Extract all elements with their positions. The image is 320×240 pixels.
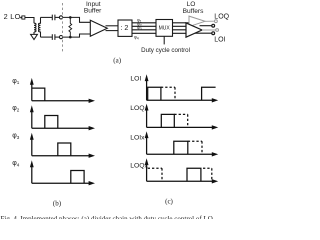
phi4 axis xyxy=(30,160,95,185)
port terminal xyxy=(20,16,25,19)
LOI next period rise xyxy=(202,87,216,100)
LOQ+ output wire xyxy=(205,20,214,22)
LOI- output wire xyxy=(195,32,212,34)
svg-text:(b): (b) xyxy=(53,200,62,208)
svg-text:Fig. 4. Implemented phases: (: Fig. 4. Implemented phases: (a) divider … xyxy=(1,215,213,219)
svg-text:(c): (c) xyxy=(165,198,173,206)
input buffer U1 xyxy=(90,20,107,36)
svg-text:LOQ: LOQ xyxy=(214,14,229,21)
resistor R1 xyxy=(69,17,72,37)
phi2 pulse xyxy=(45,116,58,129)
svg-text:LOQ: LOQ xyxy=(130,105,144,112)
LO buffer I (black) xyxy=(186,23,202,37)
LOQx trailing dotted extension xyxy=(203,168,212,181)
phase wire phi2 xyxy=(132,25,156,27)
wire: top node to input buffer xyxy=(63,17,91,22)
wire MUX to buffers 4 xyxy=(173,32,191,34)
ground xyxy=(31,34,38,39)
svg-text:φ3: φ3 xyxy=(137,25,142,31)
divider block xyxy=(118,20,132,36)
LOI solid pulse xyxy=(148,87,161,100)
LOIx dotted extension xyxy=(188,141,202,154)
phi3 axis xyxy=(30,133,95,158)
junction dot (top) xyxy=(69,16,72,19)
svg-text:LOI: LOI xyxy=(214,36,225,43)
wire MUX to buffers 3 xyxy=(173,29,196,31)
LO buffer Q (gray) xyxy=(189,16,205,27)
svg-text:Buffer: Buffer xyxy=(84,8,102,15)
wire: C2 to bottom node xyxy=(55,36,60,38)
phi1 axis xyxy=(30,78,95,103)
LOI dotted extension xyxy=(161,87,175,100)
LOQ solid pulse xyxy=(161,114,174,127)
LOI+ output wire xyxy=(200,25,212,27)
wire: buffer to divider (minus) xyxy=(106,30,119,32)
wire MUX to buffers 1 xyxy=(173,22,191,24)
LOQx solid pulse xyxy=(187,168,201,181)
svg-text:LOIx: LOIx xyxy=(130,135,145,142)
LOQ+ terminal xyxy=(215,20,218,23)
phi2 axis xyxy=(30,105,95,130)
svg-text:LOQx: LOQx xyxy=(130,162,148,169)
svg-text:φ4: φ4 xyxy=(134,35,139,41)
junction dot (bottom) xyxy=(69,36,72,39)
wire: buffer to divider (plus) xyxy=(106,25,119,27)
wire: C1 to top node xyxy=(55,16,60,18)
phase wire phi4 xyxy=(132,32,156,34)
phi4 pulse xyxy=(71,171,84,184)
LOQ- terminal xyxy=(216,29,219,32)
transformer T1 secondary winding xyxy=(39,17,41,37)
LOQ axis xyxy=(145,104,219,130)
svg-text:Duty cycle control: Duty cycle control xyxy=(141,47,190,54)
svg-text:LOI: LOI xyxy=(130,75,141,82)
svg-text:(a): (a) xyxy=(113,56,121,64)
coupling capacitor C1 (top) xyxy=(52,15,55,21)
node circle (top) xyxy=(59,16,62,19)
phase wire phi3 xyxy=(132,29,156,31)
coupling capacitor C2 (bottom) xyxy=(52,34,55,40)
phi3 pulse xyxy=(58,143,71,156)
transformer T1 primary winding xyxy=(34,23,36,32)
svg-text:2 LO: 2 LO xyxy=(4,12,21,21)
svg-text:MUX: MUX xyxy=(159,26,171,32)
LOQ- output wire xyxy=(202,29,216,31)
svg-text:: 2: : 2 xyxy=(120,23,128,32)
LOQx leading dotted pulse xyxy=(148,168,162,181)
wire: bottom node to input buffer xyxy=(63,34,91,37)
LOIx axis xyxy=(145,131,219,156)
wire: secondary top to cap C1 xyxy=(41,16,53,18)
wire: secondary bottom to cap C2 xyxy=(41,36,53,38)
LOQx axis xyxy=(145,158,219,183)
LOI+ terminal xyxy=(212,24,215,27)
duty cycle control stub wire xyxy=(163,36,165,44)
wire: port to transformer primary xyxy=(25,18,34,24)
LOI- terminal xyxy=(212,32,215,35)
LOI axis xyxy=(145,74,219,102)
svg-text:Buffers: Buffers xyxy=(183,8,204,15)
wire MUX to buffers 2 xyxy=(173,25,191,27)
phi1 pulse xyxy=(32,88,45,101)
MUX block xyxy=(156,20,173,37)
phase wire phi1 xyxy=(132,22,156,24)
dashed reference line xyxy=(62,3,64,53)
node circle (bottom) xyxy=(59,36,62,39)
wire: primary to ground xyxy=(33,32,35,34)
LOQ dotted extension xyxy=(174,114,187,127)
LOIx solid pulse xyxy=(174,141,188,154)
